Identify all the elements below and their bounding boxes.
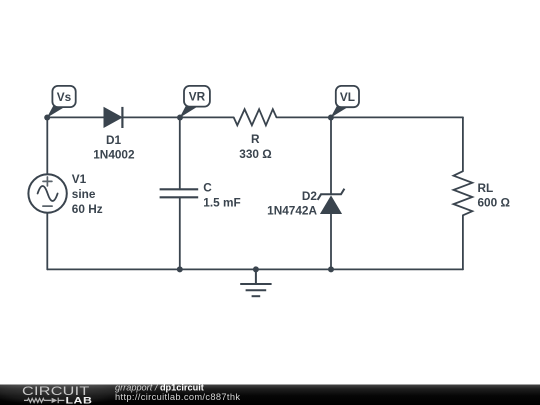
svg-text:sine: sine	[72, 187, 96, 201]
node Vs	[44, 86, 75, 121]
footer bar	[0, 379, 540, 405]
voltage source V1	[28, 172, 102, 216]
resistor RL	[454, 171, 510, 215]
svg-text:600 Ω: 600 Ω	[478, 195, 510, 209]
wire left rail Vs node down to V1 top	[46, 117, 48, 174]
zener diode D2	[267, 189, 344, 218]
node VR	[177, 86, 210, 121]
wire top rail Vs to D1 anode	[47, 116, 104, 118]
svg-text:1N4742A: 1N4742A	[267, 204, 317, 218]
svg-text:V1: V1	[72, 172, 87, 186]
svg-text:C: C	[203, 180, 212, 194]
wire right rail down to RL top	[462, 117, 464, 171]
wire R to VL node to top-right corner	[277, 116, 463, 118]
svg-text:VR: VR	[189, 90, 206, 104]
junction dot zener bottom	[328, 266, 334, 272]
wire RL bottom to bottom-right corner	[462, 215, 464, 269]
svg-text:Vs: Vs	[57, 90, 72, 104]
diode D1	[93, 107, 135, 162]
svg-text:330 Ω: 330 Ω	[239, 147, 271, 161]
svg-text:R: R	[251, 132, 260, 146]
svg-text:1N4002: 1N4002	[93, 148, 135, 162]
svg-text:60 Hz: 60 Hz	[72, 202, 103, 216]
svg-text:LAB: LAB	[66, 396, 93, 405]
svg-text:D1: D1	[106, 133, 122, 147]
wire D1 cathode to VR node to R	[122, 116, 233, 118]
wire VL node down to D2 cathode	[330, 117, 332, 194]
wire bottom rail	[47, 268, 463, 270]
ground	[240, 269, 271, 296]
svg-text:1.5 mF: 1.5 mF	[203, 195, 240, 209]
wire VR node down to capacitor top plate	[179, 117, 181, 189]
capacitor C	[160, 180, 241, 209]
wire V1 bottom to bottom rail	[46, 213, 48, 270]
wire capacitor bottom plate to bottom rail	[179, 197, 181, 269]
logo circuit squiggle (resistor + diode)	[24, 398, 64, 404]
svg-text:http://circuitlab.com/c887thk: http://circuitlab.com/c887thk	[115, 392, 240, 402]
junction dot ground	[253, 266, 259, 272]
node VL	[328, 86, 359, 121]
svg-text:D2: D2	[302, 189, 318, 203]
svg-text:RL: RL	[478, 181, 494, 195]
junction dot capacitor bottom	[177, 266, 183, 272]
resistor R	[234, 109, 277, 161]
svg-text:VL: VL	[340, 90, 355, 104]
wire D2 anode to bottom rail	[330, 214, 332, 270]
